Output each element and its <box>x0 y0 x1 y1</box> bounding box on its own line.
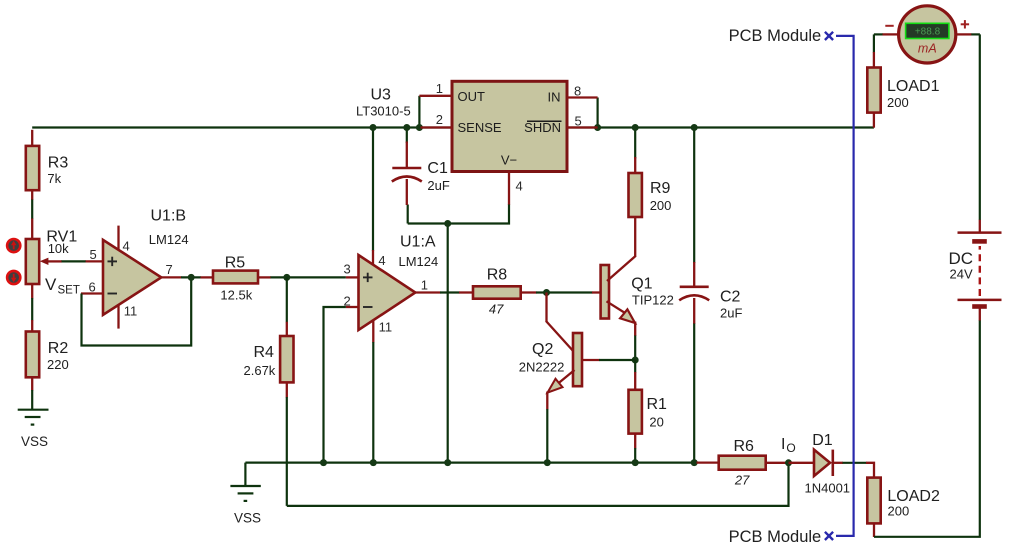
transistor Q2 2N2222 <box>519 293 600 410</box>
svg-text:R1: R1 <box>647 396 668 413</box>
wire U1:A pin11 to ground rail <box>372 342 374 463</box>
ground VSS mid <box>230 463 261 526</box>
capacitor C2 <box>679 262 742 324</box>
svg-text:OUT: OUT <box>458 89 486 104</box>
wire R3 to RV1 <box>31 200 33 220</box>
wire battery top to ammeter <box>979 34 981 219</box>
wire RV1 wiper to U1:B <box>62 260 87 262</box>
svg-text:R6: R6 <box>734 438 755 455</box>
svg-text:VSS: VSS <box>21 434 48 449</box>
svg-text:I: I <box>781 436 785 453</box>
node Q1 emitter junction <box>632 357 639 364</box>
svg-text:7k: 7k <box>47 171 61 186</box>
wire RV1 to R2 <box>31 298 33 321</box>
wire Q2 base <box>599 359 635 361</box>
wire R5 to U1:A <box>271 276 346 278</box>
svg-text:IN: IN <box>548 90 561 105</box>
svg-text:1N4001: 1N4001 <box>805 481 851 496</box>
svg-text:2N2222: 2N2222 <box>519 360 565 375</box>
svg-text:200: 200 <box>650 198 672 213</box>
svg-text:3: 3 <box>344 261 351 276</box>
svg-text:5: 5 <box>575 114 582 129</box>
wire Q2 emitter to ground rail <box>546 409 548 463</box>
diode D1 1N4001 <box>789 432 851 496</box>
wire ammeter plus side <box>971 33 980 35</box>
svg-text:2uF: 2uF <box>720 305 742 320</box>
svg-text:V: V <box>45 275 57 294</box>
resistor R4 <box>244 277 294 397</box>
svg-text:2.67k: 2.67k <box>244 363 276 378</box>
svg-text:R2: R2 <box>48 340 69 357</box>
wire R2 to ground <box>31 390 33 410</box>
regulator U3 LT3010-5 <box>356 81 567 171</box>
svg-text:R4: R4 <box>254 344 275 361</box>
wire R4 to bottom sense line <box>286 397 288 506</box>
svg-text:O: O <box>786 441 795 455</box>
svg-text:2uF: 2uF <box>427 178 449 193</box>
svg-text:200: 200 <box>887 95 909 110</box>
svg-text:DC: DC <box>949 249 974 268</box>
node V- junction <box>444 220 451 227</box>
node PCB module top terminal <box>825 32 833 40</box>
wire Q1 emitter to node <box>634 336 636 361</box>
svg-text:2: 2 <box>436 112 443 127</box>
wire R1 to ground rail <box>634 448 636 463</box>
pin 8 U3 IN <box>567 83 598 98</box>
node PCB module bottom terminal <box>825 532 833 540</box>
node Io junction <box>785 459 792 466</box>
svg-text:11: 11 <box>124 304 138 319</box>
wire V- net <box>408 205 509 463</box>
svg-text:1: 1 <box>436 81 443 96</box>
svg-text:4: 4 <box>516 179 523 194</box>
svg-text:1: 1 <box>421 278 428 293</box>
wire U1:A output to R8 <box>440 291 460 293</box>
svg-text:10k: 10k <box>48 241 69 256</box>
RV1 down button <box>7 271 20 284</box>
resistor LOAD2 <box>866 463 940 537</box>
svg-text:R5: R5 <box>225 255 246 272</box>
wire U1:B output <box>181 276 201 278</box>
capacitor C1 <box>392 142 450 206</box>
resistor R2 <box>26 320 69 391</box>
node Io label <box>781 436 796 455</box>
pin 1 U3 OUT <box>419 81 452 96</box>
svg-text:LT3010-5: LT3010-5 <box>356 104 411 119</box>
wire PCB module blue link <box>836 36 854 536</box>
svg-text:LM124: LM124 <box>149 232 189 247</box>
svg-text:LOAD1: LOAD1 <box>887 78 940 95</box>
pin 5 U3 SHDN <box>567 114 598 129</box>
svg-text:V−: V− <box>501 153 517 168</box>
svg-text:U1:B: U1:B <box>151 208 187 225</box>
resistor R3 <box>26 130 69 200</box>
svg-text:D1: D1 <box>812 432 833 449</box>
svg-text:20: 20 <box>649 414 663 429</box>
resistor R1 <box>629 360 668 449</box>
svg-text:8: 8 <box>574 83 581 98</box>
svg-text:220: 220 <box>47 357 69 372</box>
transistor Q1 TIP122 <box>592 217 674 336</box>
ammeter mA meter <box>883 6 972 63</box>
resistor R5 <box>201 255 272 303</box>
svg-text:R8: R8 <box>487 266 508 283</box>
resistor R6 <box>697 438 790 487</box>
wire C2 to ground rail <box>693 324 695 463</box>
svg-text:27: 27 <box>734 472 750 487</box>
wire LOAD2 to battery bottom <box>874 320 980 537</box>
svg-text:C2: C2 <box>720 289 741 306</box>
svg-text:PCB Module: PCB Module <box>729 528 822 546</box>
pin 4 U3 Vminus <box>509 172 523 206</box>
op-amp U1:B <box>81 208 189 329</box>
svg-text:Q1: Q1 <box>631 276 652 293</box>
resistor LOAD1 <box>867 52 939 128</box>
wire top rail net <box>32 96 874 263</box>
svg-text:LM124: LM124 <box>399 254 439 269</box>
svg-text:24V: 24V <box>950 267 973 282</box>
RV1 up button <box>7 239 20 252</box>
svg-text:+88.8: +88.8 <box>915 26 941 37</box>
wire bottom sense line <box>287 463 789 506</box>
svg-text:Q2: Q2 <box>532 341 553 358</box>
svg-text:SET: SET <box>58 285 80 297</box>
svg-text:R3: R3 <box>48 154 69 171</box>
wire ammeter minus side <box>874 34 883 52</box>
svg-text:47: 47 <box>489 301 504 316</box>
svg-text:R9: R9 <box>650 180 671 197</box>
svg-text:11: 11 <box>379 319 393 334</box>
svg-text:SENSE: SENSE <box>458 120 502 135</box>
wire D1 to LOAD2 <box>843 462 867 464</box>
node U1:B output junction <box>188 274 195 281</box>
battery DC 24V <box>949 220 1002 321</box>
wire U1:B feedback loop <box>82 277 192 345</box>
svg-text:U1:A: U1:A <box>400 234 436 251</box>
resistor R8 <box>459 266 537 316</box>
wire bottom ground rail <box>245 462 697 464</box>
svg-text:6: 6 <box>89 280 96 295</box>
wire R8 to Q1 base <box>536 291 593 293</box>
svg-text:C1: C1 <box>427 160 448 177</box>
svg-text:TIP122: TIP122 <box>632 292 674 307</box>
svg-text:mA: mA <box>918 42 937 56</box>
svg-text:200: 200 <box>888 503 910 518</box>
svg-text:4: 4 <box>123 239 130 254</box>
svg-text:5: 5 <box>90 247 97 262</box>
node top rail junctions <box>370 124 698 131</box>
svg-text:4: 4 <box>378 253 385 268</box>
svg-text:12.5k: 12.5k <box>220 287 252 302</box>
resistor R9 <box>629 157 672 217</box>
op-amp U1:A <box>346 234 441 343</box>
svg-text:U3: U3 <box>371 87 392 104</box>
svg-text:SHDN: SHDN <box>524 120 561 135</box>
svg-text:PCB Module: PCB Module <box>729 27 822 45</box>
svg-text:VSS: VSS <box>234 511 261 526</box>
ground VSS left <box>18 410 49 449</box>
node R5/R4 junction <box>283 274 290 281</box>
svg-text:7: 7 <box>166 262 173 277</box>
wire U1:A pin2 to ground rail <box>324 307 346 463</box>
pin 2 U3 SENSE <box>421 112 453 128</box>
node Q1 base junction <box>543 289 550 296</box>
node ground rail junctions <box>320 459 698 466</box>
potentiometer RV1 <box>26 219 80 299</box>
